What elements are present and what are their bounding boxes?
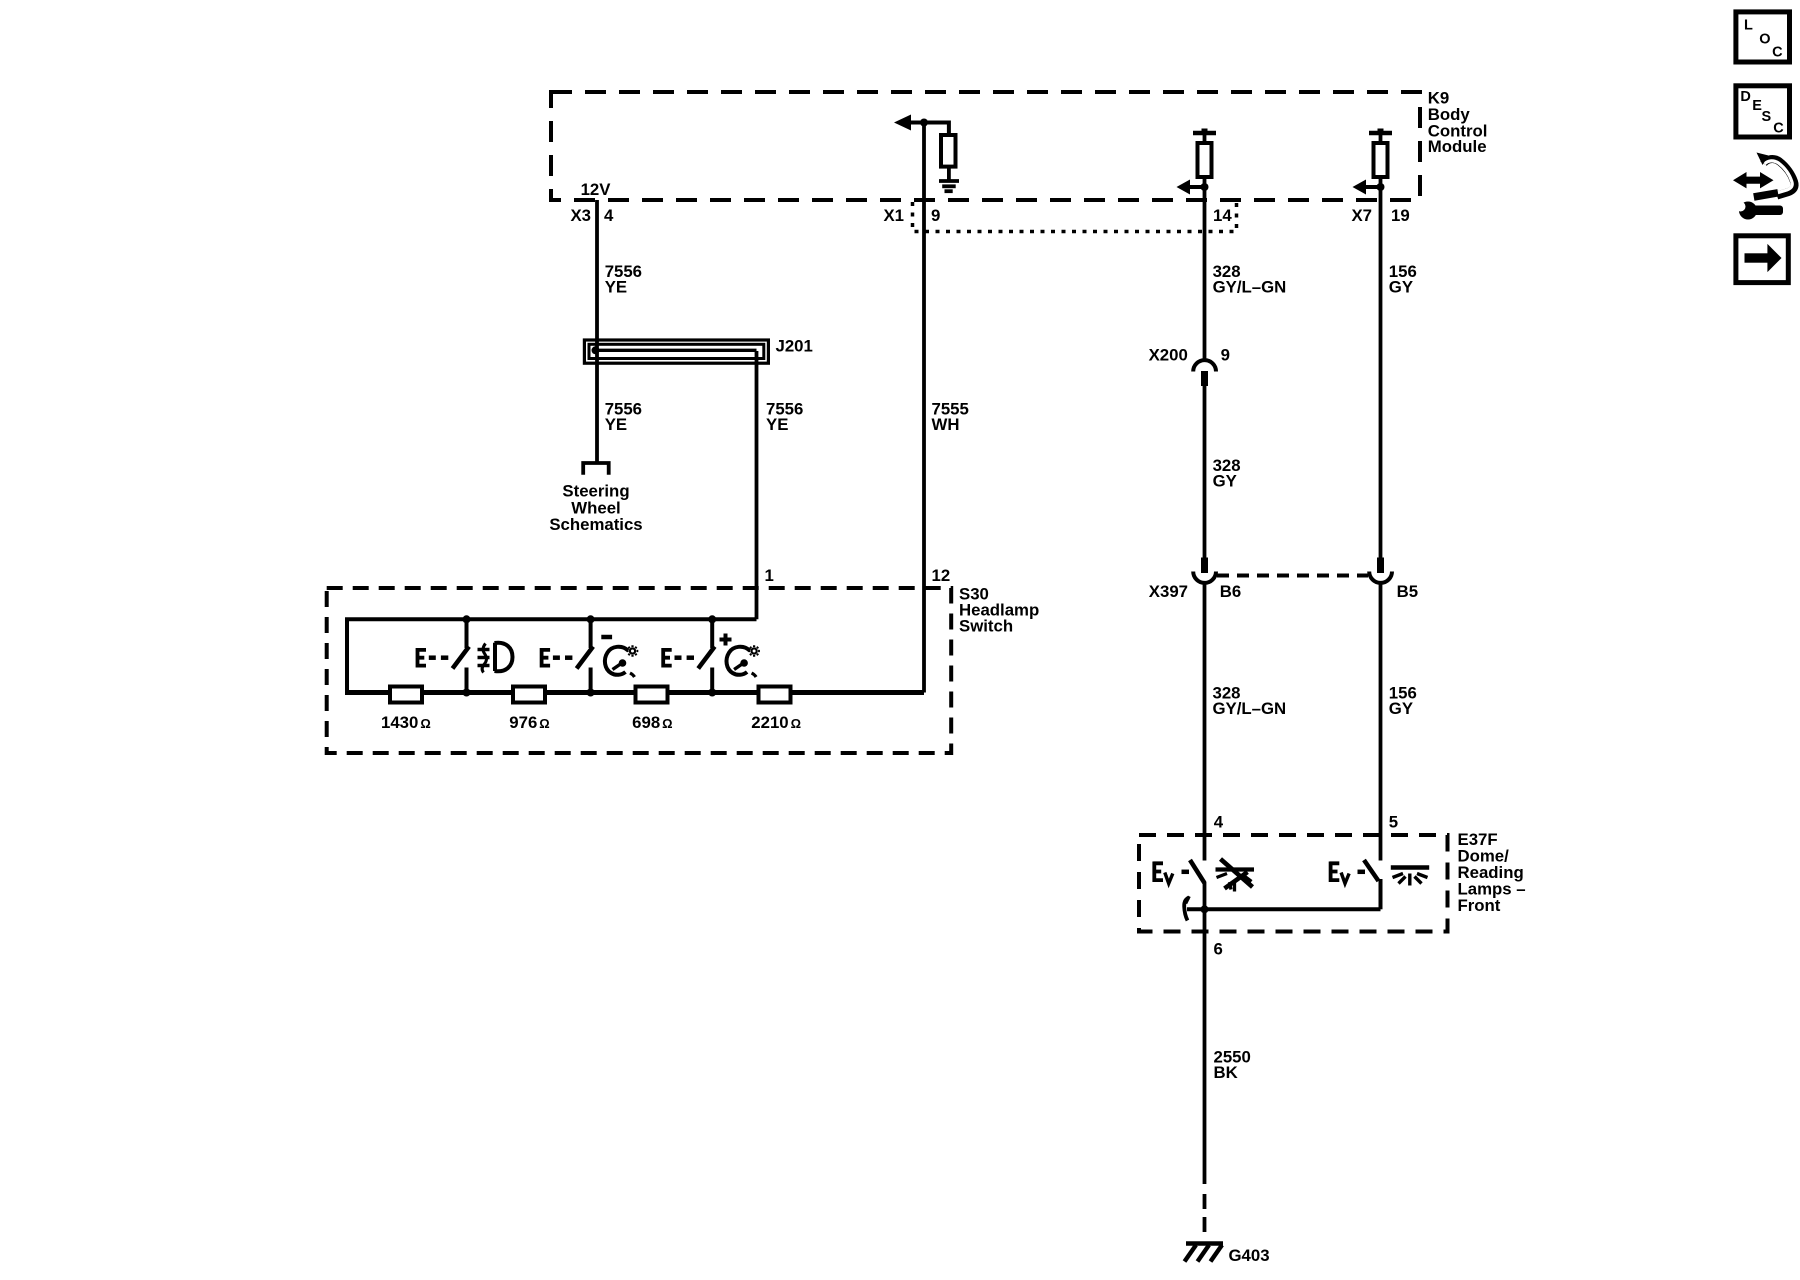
wrench icon xyxy=(1736,202,1784,220)
wire label 156 GY upper xyxy=(1389,262,1417,297)
svg-text:J201: J201 xyxy=(776,337,813,356)
svg-text:GY/L–GN: GY/L–GN xyxy=(1213,278,1287,297)
svg-text:GY: GY xyxy=(1213,471,1237,490)
wire resistor to ground xyxy=(947,167,951,180)
wire B5 to E37F pin 5 xyxy=(1379,584,1383,861)
wire B6 to E37F pin 4 xyxy=(1203,584,1207,861)
junction at BCM X1-9 xyxy=(920,119,928,127)
BCM internal arrow (pin 14) xyxy=(1177,180,1205,195)
lamp link wire xyxy=(1187,907,1381,911)
BCM internal ground xyxy=(939,181,959,191)
DESC box xyxy=(1736,86,1790,137)
wire X7-19 156 GY xyxy=(1379,187,1383,558)
svg-text:Front: Front xyxy=(1458,896,1501,915)
splice pack J201 xyxy=(584,340,768,363)
wire label 328 GY/L-GN upper xyxy=(1213,262,1287,297)
switch S2 contacts and blade xyxy=(577,619,594,692)
actuator E switch S3 xyxy=(662,648,694,668)
svg-text:GY: GY xyxy=(1389,699,1413,718)
wire pin 14 to X200 328 GY/L-GN xyxy=(1203,187,1207,360)
svg-text:9: 9 xyxy=(1221,346,1230,365)
left dome lamp icon xyxy=(1216,859,1255,892)
wire label 7556 YE lower-right xyxy=(766,399,803,434)
wire resistor to junction (pin 14) xyxy=(1203,177,1207,187)
svg-text:X3: X3 xyxy=(570,206,591,225)
double arrow icon xyxy=(1733,172,1774,188)
svg-text:14: 14 xyxy=(1213,206,1232,225)
junction top bus 1 xyxy=(463,615,471,623)
BCM internal resistor (X7-19) xyxy=(1374,143,1388,177)
junction top bus 3 xyxy=(708,615,716,623)
switch S1 contacts and blade xyxy=(453,619,470,692)
S30 Headlamp Switch label xyxy=(959,584,1039,635)
actuator E switch S2 xyxy=(541,648,573,668)
K9 Body Control Module label xyxy=(1428,89,1488,156)
forward arrow box xyxy=(1736,236,1788,283)
svg-text:9: 9 xyxy=(931,206,940,225)
E37F label xyxy=(1458,830,1526,915)
lamp link junction xyxy=(1201,905,1209,913)
left lamp switch blade xyxy=(1190,860,1205,883)
forward arrow xyxy=(1745,244,1782,272)
fog lamp icon xyxy=(478,643,513,673)
BCM internal resistor (X1-9 branch) xyxy=(941,135,956,167)
lamp link hook xyxy=(1184,896,1189,920)
svg-text:YE: YE xyxy=(766,415,788,434)
Steering Wheel Schematics label xyxy=(549,481,642,534)
X397 dashed connector link xyxy=(1217,574,1368,578)
svg-text:12V: 12V xyxy=(581,180,612,199)
resistor 1430 ohm xyxy=(390,687,422,703)
svg-text:2210Ω: 2210Ω xyxy=(751,713,801,732)
svg-text:4: 4 xyxy=(1214,812,1224,831)
left lamp wire lower xyxy=(1203,882,1207,1184)
junction bottom bus 3 xyxy=(708,689,716,697)
junction bottom bus 2 xyxy=(587,689,595,697)
E37F Dome/Reading Lamps box xyxy=(1139,835,1448,932)
svg-text:19: 19 xyxy=(1391,206,1410,225)
actuator Ev right lamp xyxy=(1330,862,1349,884)
BCM supply bar (pin 14) xyxy=(1193,129,1216,144)
svg-text:BK: BK xyxy=(1214,1063,1238,1082)
svg-text:O: O xyxy=(1759,31,1770,47)
svg-text:Module: Module xyxy=(1428,137,1487,156)
resistor 976 ohm xyxy=(513,687,545,703)
S30 top bus xyxy=(347,619,757,692)
svg-text:B5: B5 xyxy=(1397,582,1418,601)
svg-text:GY: GY xyxy=(1389,278,1413,297)
junction top bus 2 xyxy=(587,615,595,623)
switch S3 contacts and blade xyxy=(698,619,715,692)
dash right lamp switch xyxy=(1358,870,1366,875)
right lamp switch blade xyxy=(1364,860,1379,881)
junction X7-19 xyxy=(1377,183,1385,191)
dotted connector box X1 xyxy=(913,202,1237,232)
dimmer icon S2 xyxy=(605,645,638,677)
LOC box xyxy=(1736,12,1790,62)
junction bottom bus 1 xyxy=(463,689,471,697)
svg-text:S: S xyxy=(1762,109,1772,125)
DESC letters xyxy=(1740,89,1784,137)
svg-text:WH: WH xyxy=(932,415,960,434)
right dome lamp icon xyxy=(1391,868,1429,886)
LOC letters xyxy=(1744,17,1783,60)
svg-text:C: C xyxy=(1773,121,1784,137)
J201 bus xyxy=(592,346,757,354)
inline connector X200-9 xyxy=(1193,360,1216,386)
wire resistor to junction (X7-19) xyxy=(1379,177,1383,187)
bent arrow band icon xyxy=(1754,153,1795,198)
BCM supply bar (pin X7-19) xyxy=(1369,129,1392,144)
svg-text:976Ω: 976Ω xyxy=(509,713,549,732)
wire J201 to S30 pin 1 xyxy=(755,351,759,619)
actuator E switch S1 xyxy=(417,648,449,668)
svg-text:X7: X7 xyxy=(1351,206,1372,225)
svg-text:12: 12 xyxy=(932,566,951,585)
wire label 7556 YE upper xyxy=(605,262,642,297)
wire label 328 GY xyxy=(1213,456,1241,491)
S30 bottom bus xyxy=(345,690,924,695)
BCM internal resistor (pin 14) xyxy=(1198,143,1212,177)
svg-text:YE: YE xyxy=(605,415,627,434)
steering wheel stub xyxy=(583,463,609,475)
svg-text:1: 1 xyxy=(765,566,774,585)
wire label 328 GY/L-GN lower xyxy=(1213,684,1287,719)
junction pin 14 xyxy=(1201,183,1209,191)
actuator Ev left lamp xyxy=(1153,862,1172,884)
plus sign xyxy=(720,634,732,646)
svg-text:C: C xyxy=(1772,44,1783,60)
svg-text:D: D xyxy=(1740,89,1750,105)
wire X3-4 7556 YE xyxy=(595,200,599,462)
svg-text:Switch: Switch xyxy=(959,616,1013,635)
wire dashed to ground xyxy=(1203,1194,1207,1232)
svg-text:Schematics: Schematics xyxy=(549,515,642,534)
svg-text:GY/L–GN: GY/L–GN xyxy=(1213,699,1287,718)
K9 Body Control Module box xyxy=(551,92,1420,200)
svg-text:4: 4 xyxy=(604,206,614,225)
svg-text:X1: X1 xyxy=(883,206,904,225)
resistor 698 ohm xyxy=(636,687,668,703)
wire X200 to X397 328 GY xyxy=(1203,386,1207,558)
inline connector B5 xyxy=(1369,558,1392,583)
wire label 156 GY lower xyxy=(1389,684,1417,719)
ground G403 xyxy=(1185,1244,1224,1262)
inline connector X397-B6 xyxy=(1193,558,1216,583)
svg-text:X200: X200 xyxy=(1149,346,1188,365)
BCM internal arrow (X1-9 branch) xyxy=(894,115,949,136)
dash left lamp switch xyxy=(1182,870,1190,875)
wire X1-9 7555 WH vertical xyxy=(922,123,926,693)
svg-text:G403: G403 xyxy=(1229,1246,1270,1265)
S30 Headlamp Switch box xyxy=(327,588,952,753)
svg-text:6: 6 xyxy=(1214,940,1223,959)
minus sign xyxy=(601,635,612,640)
svg-text:698Ω: 698Ω xyxy=(632,713,672,732)
BCM internal arrow (X7-19) xyxy=(1353,180,1381,195)
dimmer icon S3 xyxy=(727,645,760,677)
svg-text:5: 5 xyxy=(1389,812,1398,831)
right lamp wire lower xyxy=(1379,879,1383,909)
svg-text:1430Ω: 1430Ω xyxy=(381,713,431,732)
wire label 2550 BK xyxy=(1214,1048,1251,1082)
wire label 7555 WH xyxy=(932,399,969,434)
wire label 7556 YE lower-left xyxy=(605,399,642,434)
svg-text:X397: X397 xyxy=(1149,582,1188,601)
svg-text:B6: B6 xyxy=(1220,582,1241,601)
svg-text:YE: YE xyxy=(605,278,627,297)
svg-text:L: L xyxy=(1744,17,1753,33)
resistor 2210 ohm xyxy=(759,687,791,703)
